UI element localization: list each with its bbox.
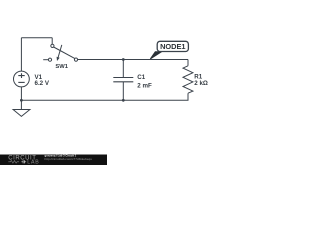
capacitor C1 <box>113 78 133 82</box>
svg-text:6.2 V: 6.2 V <box>35 80 50 87</box>
node NODE1 box <box>157 41 188 51</box>
svg-text:LAB: LAB <box>27 160 39 166</box>
wire C1 top lead <box>122 60 124 78</box>
svg-text:2 kΩ: 2 kΩ <box>194 80 208 87</box>
svg-text:C1: C1 <box>137 74 145 81</box>
junction C1 bottom <box>122 99 125 102</box>
resistor R1 <box>183 66 193 93</box>
wire C1 bottom lead <box>122 82 124 101</box>
wire R1 bottom to bottom rail <box>21 93 188 100</box>
svg-text:2 mF: 2 mF <box>137 82 152 89</box>
CircuitLab logo squiggle <box>8 161 19 164</box>
wire V1 bottom to bottom rail <box>20 87 22 100</box>
switch SW1 <box>43 44 77 61</box>
wire switch right terminal to top rail right <box>78 59 188 61</box>
voltage source V1 <box>14 71 30 87</box>
svg-text:http://circuitlab.com/c77c6kke: http://circuitlab.com/c77c6kkebequ <box>45 157 93 161</box>
wire top rail left segment <box>21 37 52 39</box>
wire top-left vertical (V1 top to top rail) <box>20 38 22 71</box>
junction bottom-left <box>20 99 23 102</box>
wire ground stub <box>20 100 22 109</box>
footer bar <box>0 155 107 166</box>
wire top-right corner down to R1 <box>187 60 189 66</box>
node NODE1 callout pointer <box>150 52 161 59</box>
switch SW1 arrowhead <box>57 57 60 61</box>
CircuitLab logo capacitor mark <box>21 160 26 163</box>
ground <box>13 110 30 117</box>
wire down to switch pole <box>51 38 53 45</box>
svg-text:NODE1: NODE1 <box>160 42 185 51</box>
svg-text:SW1: SW1 <box>55 64 68 70</box>
junction C1 top <box>122 58 125 61</box>
